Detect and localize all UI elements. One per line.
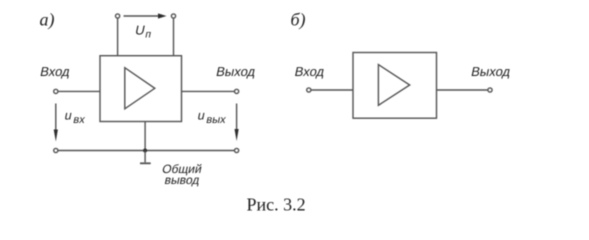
wire: right power stem (173, 18, 175, 56)
common rail right terminal (235, 148, 239, 152)
svg-text:а): а) (40, 10, 55, 31)
arrow u_vyx (down) (235, 104, 239, 142)
svg-text:Вход: Вход (293, 64, 326, 79)
svg-text:uвх: uвх (63, 109, 88, 126)
power terminal right (Uп) (171, 14, 175, 18)
svg-text:Выход: Выход (215, 64, 257, 79)
wire: left power stem (117, 18, 119, 56)
svg-text:Выход: Выход (470, 64, 512, 79)
arrow u_vx (down) (54, 104, 58, 142)
junction dot (143, 149, 147, 153)
output terminal (a) (235, 89, 239, 93)
svg-text:Рис. 3.2: Рис. 3.2 (247, 195, 306, 215)
amplifier box A1 (100, 56, 182, 122)
wire: box to output (182, 90, 235, 92)
arrow Uп (left to right) (124, 13, 167, 18)
common rail left terminal (54, 148, 58, 152)
wire: input to box (58, 90, 100, 92)
wire: input to box (b) (311, 89, 353, 91)
amplifier box A2 (353, 53, 437, 119)
input terminal (b) (307, 88, 311, 92)
svg-text:Uп: Uп (133, 23, 154, 41)
amplifier triangle (125, 68, 155, 109)
svg-text:Вход: Вход (39, 64, 72, 79)
input terminal (a) (54, 89, 58, 93)
amplifier triangle (b) (378, 65, 409, 106)
wire: bottom common rail (58, 150, 235, 152)
power terminal left (Uп) (116, 14, 120, 18)
svg-text:вывод: вывод (163, 173, 201, 187)
wire: box bottom to rail (144, 122, 146, 151)
ground symbol (140, 151, 151, 164)
wire: box to output (b) (437, 89, 488, 91)
svg-text:б): б) (291, 10, 306, 31)
output terminal (b) (488, 88, 492, 92)
svg-text:uвых: uвых (196, 109, 229, 126)
